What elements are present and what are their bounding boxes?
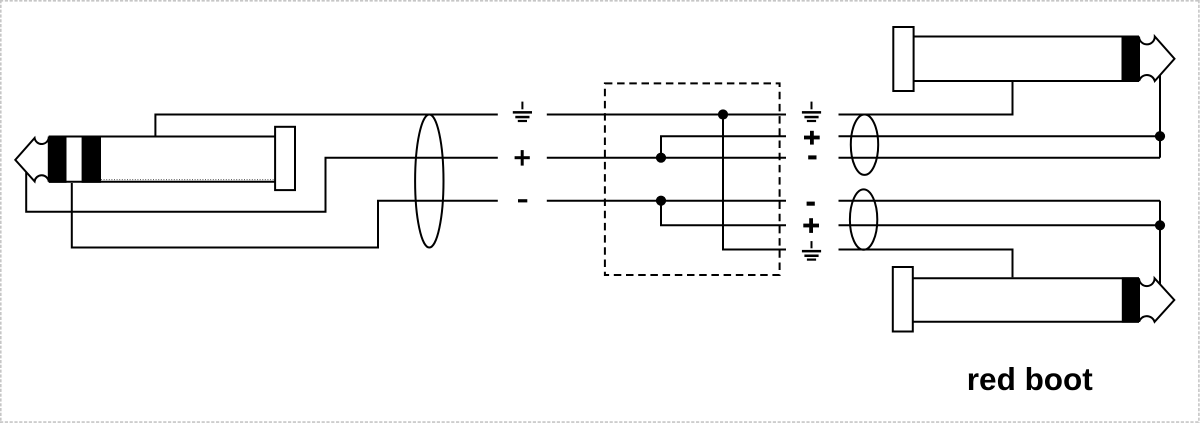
svg-text:red boot: red boot (967, 361, 1093, 397)
